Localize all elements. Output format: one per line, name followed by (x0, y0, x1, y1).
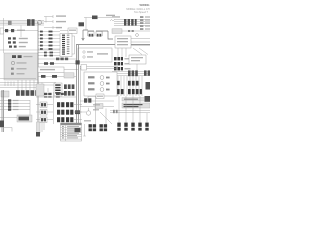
circle node (136, 34, 139, 37)
dense block 2 (64, 91, 74, 96)
center box mid text (40, 69, 55, 70)
bottom connector of pair (75, 128, 81, 132)
right mid hatch column r3 (114, 67, 123, 70)
CN1 hatch col B (67, 35, 70, 55)
right connector row 2b (128, 89, 142, 94)
fuse cluster row 3b (14, 46, 17, 48)
wire into box (0, 117, 17, 119)
text bar right (122, 103, 150, 108)
main bus right (76, 44, 150, 46)
svg-text:WIRING: WIRING (139, 3, 149, 7)
dense block right of tall box (64, 84, 74, 89)
connector J1 (27, 19, 31, 26)
wire row L1 (0, 30, 38, 32)
right vertical harness (118, 76, 142, 96)
relay box K0 (68, 28, 77, 34)
wire below CN1 (38, 58, 76, 60)
left bottom rows (0, 101, 30, 110)
right top connector hatch (124, 19, 137, 26)
right bottom bundle (110, 111, 150, 113)
tall hatched box interior (55, 84, 60, 93)
label t1 (56, 15, 66, 16)
right edge block (144, 70, 150, 75)
wire above legend (36, 88, 76, 97)
right edge labels (145, 16, 150, 29)
right box B2 (129, 55, 146, 64)
CN1 hatch col A (62, 35, 65, 55)
row connectors r7 (44, 52, 53, 54)
connector strip bottom-left (16, 90, 44, 96)
hatch grid row1 (57, 102, 73, 107)
center row3 blocks (41, 75, 46, 78)
gray box left of tall box (36, 84, 44, 96)
right edge blob (146, 82, 151, 90)
right bundle connector (128, 70, 138, 76)
vertical drop mid (20, 26, 22, 38)
fuse cluster row 1 (8, 37, 11, 39)
left row labels (13, 100, 19, 110)
label t2 (56, 21, 66, 22)
left vertical main (2, 90, 4, 132)
connector J3 circle (37, 20, 41, 24)
row connectors r6 (40, 48, 53, 50)
relay box R1 rows (117, 38, 128, 45)
legend table (61, 123, 82, 141)
CN1 right bracket (72, 36, 75, 54)
diagonal wire (100, 112, 112, 124)
blob on vertical pair (76, 60, 80, 64)
vertical center (53, 92, 55, 124)
solenoid A (88, 32, 94, 37)
wires from R1 (131, 39, 150, 46)
row connectors r1 (40, 31, 53, 33)
gray bar text (124, 99, 138, 100)
marks on wire (128, 30, 134, 32)
sensor drop wire (83, 124, 86, 136)
hatch block bottom center (84, 98, 91, 102)
vertical to box (29, 100, 31, 116)
fuse cluster label 1 (19, 38, 28, 39)
bundle ticks (113, 110, 118, 113)
verticals below fusebox (18, 80, 42, 90)
center rows y62 (38, 63, 76, 65)
fuse cluster label 2 (19, 42, 28, 43)
center vertical third (79, 66, 81, 128)
row connectors r8 (44, 55, 53, 57)
wire to K0 (60, 30, 68, 32)
hatch grid row3 (57, 117, 73, 122)
main connector column CN1 (60, 34, 72, 57)
bundle label (112, 16, 120, 17)
relay box R1 (115, 36, 131, 48)
left edge box (0, 28, 4, 34)
resistor box (95, 104, 103, 109)
verticals bottom center (96, 96, 107, 125)
top center wire (84, 17, 112, 19)
center row blocks (44, 62, 48, 65)
main vertical end block (36, 132, 40, 137)
engine box (84, 72, 117, 96)
tall hatched box (54, 83, 62, 96)
blocks above legend row2 (44, 96, 60, 98)
harness rows center-left (38, 32, 60, 56)
right edge dark blob2 (145, 96, 151, 102)
wires from stacked connectors (36, 105, 53, 120)
drop wire (85, 18, 87, 31)
ecu text (97, 53, 108, 54)
blocks above legend row1 (44, 93, 64, 95)
relay box K0 label (69, 30, 76, 31)
center gray box (64, 73, 74, 78)
svg-text:Two Speed T: Two Speed T (134, 11, 149, 14)
connector L1a (5, 29, 8, 32)
aux verticals near main (42, 122, 44, 132)
ecu item 2 (83, 56, 93, 58)
wire from small box (122, 30, 150, 32)
row connectors r5 (40, 45, 53, 47)
engine item 3 (88, 88, 110, 92)
engine item 1 (88, 76, 110, 80)
right mid hatch column r2 (114, 62, 123, 65)
coil connector 3 (131, 123, 134, 131)
right connector row 1b (128, 81, 139, 86)
hatch grid row2 (57, 110, 73, 115)
right connector row 1a (113, 81, 120, 85)
coil connector 1 (117, 123, 120, 131)
fusebox circle (11, 61, 14, 64)
right top bundle (114, 20, 150, 26)
center box mid (38, 67, 64, 73)
coil connector 4 (138, 123, 141, 131)
fuse cluster row 2b (13, 41, 16, 43)
blob on vertical pair low (75, 110, 80, 114)
small gray box left (1, 91, 9, 97)
label t3 (56, 27, 62, 28)
connector J2 (31, 19, 34, 26)
ecu item 1 (83, 51, 93, 53)
vertical wire left (3, 18, 5, 53)
right bundle mid (112, 72, 150, 76)
bottom center labels (84, 104, 100, 121)
stacked connector sc3 (40, 117, 47, 123)
harness ticks (5, 82, 14, 87)
row connectors r3 (40, 38, 53, 40)
solenoid B (96, 32, 102, 37)
center row3 blocks2 (52, 75, 57, 78)
fuse cluster row 3 (9, 46, 12, 48)
row connectors r4 (40, 41, 53, 43)
gray component box (17, 115, 32, 122)
small box on engine wire (81, 65, 87, 71)
ecu box (78, 48, 112, 62)
stacked connector sc2 (40, 110, 47, 116)
left bottom wire (0, 128, 12, 132)
L1 text (17, 30, 25, 31)
legend dots (62, 126, 63, 138)
wire row t3 (44, 26, 60, 29)
coil connector 2 (124, 123, 127, 131)
row connectors r2 (40, 34, 53, 36)
wire row t2 (44, 20, 53, 23)
right box B2 text (131, 57, 143, 61)
strip label (38, 86, 44, 87)
right mid hatch column r1 (114, 57, 123, 60)
stacked connector sc1 (40, 102, 47, 108)
fuse cluster label 3 (19, 46, 26, 47)
fuse cluster row 2 (8, 41, 11, 43)
wire row t1 (44, 15, 53, 18)
top right label (106, 15, 115, 16)
bus wire left (0, 49, 60, 51)
top component (92, 16, 98, 20)
fusebox items row1 (12, 55, 33, 58)
wire right of center box (64, 69, 78, 71)
bottom connector B (100, 124, 108, 131)
wire to bottom center box (88, 96, 96, 100)
fusebox (4, 53, 38, 80)
wire from B2 (136, 64, 138, 71)
coil connector 5 (145, 123, 148, 131)
wires from grid (74, 105, 82, 120)
fusebox items row4 (11, 73, 25, 75)
diag wires (118, 48, 148, 57)
gray bar right (122, 98, 150, 101)
main vertical center-left (37, 22, 39, 132)
fusebox items row2 (17, 62, 27, 63)
resistor mark right (110, 20, 115, 22)
connector pins (8, 21, 12, 25)
fusebox items row3 (11, 68, 27, 70)
coil verticals (119, 96, 147, 123)
left row plugs (8, 99, 11, 111)
right connector row 2a (113, 89, 124, 94)
harness below fusebox (0, 79, 56, 88)
small box right (112, 29, 122, 34)
wire bundle top-left (0, 21, 44, 26)
engine item 2 (88, 82, 110, 86)
gray component hatch (19, 117, 30, 121)
condenser (86, 108, 90, 115)
riser to bracket rows (45, 17, 47, 23)
fuse cluster row 1b (13, 37, 16, 39)
bottom center box (96, 94, 104, 99)
relay blob left (79, 22, 85, 26)
legend text (67, 126, 79, 138)
ignition circuit wires (82, 30, 113, 40)
center row blocks2 (50, 62, 54, 65)
bottom connector A (89, 124, 97, 131)
center rows y75 (38, 76, 76, 78)
right edge pin rows (140, 16, 143, 30)
left edge block (0, 121, 4, 128)
main vertical gray sleeve (37, 122, 41, 133)
hatched row below CN1 (56, 58, 68, 61)
bottom center wires (80, 101, 114, 112)
engine wires (80, 67, 118, 69)
connector L1b (11, 29, 14, 32)
center vertical pair (77, 45, 79, 128)
right mid labels (125, 58, 131, 69)
